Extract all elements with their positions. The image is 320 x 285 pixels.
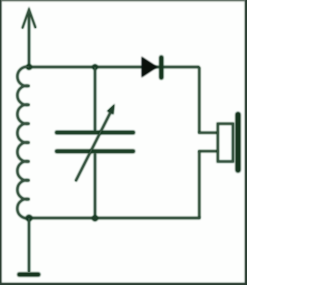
wire earphone top lead [198,131,218,133]
node junction capacitor top [92,64,98,70]
wire capacitor bottom lead [94,153,96,218]
node junction coil bottom [26,215,33,222]
diode D1 triangle (anode) [142,57,158,78]
wire ground lead [28,218,30,272]
inductor L1 [17,67,29,219]
earphone diaphragm bar [235,115,241,171]
variable capacitor C1 arrow [76,104,115,181]
node junction capacitor bottom [92,215,98,221]
antenna [22,10,35,68]
ground [19,272,38,277]
variable capacitor C1 top plate [57,131,133,135]
diode D1 cathode bar [159,58,164,78]
wire bottom horizontal [29,217,200,219]
border frame [0,0,250,285]
wire right vertical from earphone bottom lead down [198,151,200,218]
wire capacitor top lead [94,67,96,131]
variable capacitor C1 bottom plate [57,149,133,153]
wire earphone bottom lead [198,150,218,152]
wire right vertical from diode to earphone top lead [198,67,200,133]
wire top horizontal [29,66,199,68]
earphone body rectangle [218,124,233,162]
node junction antenna/coil top [26,64,32,70]
